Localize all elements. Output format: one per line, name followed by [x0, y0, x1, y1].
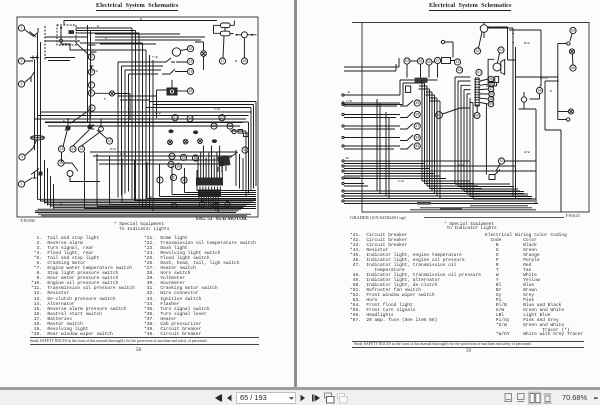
- svg-text:39: 39: [415, 145, 419, 149]
- add page icon: [325, 393, 335, 403]
- svg-text:B: B: [235, 59, 237, 63]
- svg-text:1: 1: [173, 205, 175, 209]
- battery link wires: [214, 21, 235, 58]
- wire row connecting circles: [410, 42, 454, 62]
- page separator: [294, 0, 297, 387]
- switch circle 38: [414, 134, 420, 140]
- svg-text:55: 55: [418, 60, 422, 64]
- leader 44A: [442, 108, 470, 114]
- wire from bracket area down: [545, 81, 561, 130]
- mid verticals descending to bus: [377, 99, 389, 199]
- thick bus bar A: [417, 202, 431, 205]
- item 12 resistor: [78, 146, 84, 152]
- thick bus bar B: [440, 207, 462, 209]
- comb bottom stem: [476, 106, 478, 112]
- right bracket vertical wire: [557, 44, 559, 120]
- svg-text:3: 3: [172, 177, 174, 181]
- svg-text:37: 37: [415, 125, 419, 129]
- label FIG. 53 65-B MOTOR: [196, 217, 247, 222]
- left vertical wire run B: [40, 42, 42, 202]
- vertical wire right of center: [509, 30, 541, 86]
- svg-text:T/W: T/W: [92, 69, 98, 73]
- svg-text:70.68%: 70.68%: [562, 393, 587, 402]
- svg-text:16: 16: [188, 61, 192, 65]
- stub terminals switch feeders: [342, 102, 344, 104]
- left stub Y/B upper: [344, 104, 362, 106]
- short stubs mid: [344, 178, 368, 186]
- svg-text:44: 44: [455, 61, 459, 65]
- leader alternator to circle 15: [181, 49, 188, 50]
- item 23 dash light: [211, 123, 217, 129]
- item 8 stop light pressure switch: [88, 90, 94, 96]
- battery 1: [221, 23, 231, 28]
- svg-text:B/W: B/W: [524, 150, 530, 154]
- svg-text:12: 12: [79, 148, 83, 152]
- comb feeder horizontals: [455, 77, 473, 103]
- ignition switch assembly dark component: [218, 152, 238, 173]
- V2 bus corners: [455, 184, 536, 199]
- bus risers staircase: [85, 152, 198, 209]
- item 21 dome light: [172, 115, 178, 121]
- vertical from indicators down to horn switch: [485, 104, 487, 175]
- wire connector comb A item 32: [196, 146, 223, 186]
- stub wires on motor pair: [88, 45, 97, 52]
- item 32 wire connector: [181, 177, 187, 183]
- item 55 front turn signals: [417, 58, 423, 64]
- continuous view icon: [544, 394, 552, 403]
- left vertical wire run C: [34, 63, 36, 150]
- cranking motor dashed enclosure item 6: [57, 25, 76, 45]
- item 51 defroster fan switch: [498, 47, 504, 53]
- flood light capsule symbol: [31, 136, 45, 140]
- svg-text:4: 4: [21, 156, 23, 160]
- leader lamp to 56: [571, 54, 574, 65]
- toolbar: [0, 387, 600, 405]
- horizontal wires to right edge T B Gr: [45, 102, 256, 132]
- right page: [297, 0, 600, 387]
- vertical bundle V2 comb to bus: [455, 77, 473, 199]
- switch symbol c: [198, 139, 203, 144]
- svg-text:35: 35: [415, 102, 419, 106]
- wire to long vertical right: [519, 109, 537, 204]
- right page title: [429, 3, 511, 9]
- svg-text:41: 41: [477, 72, 481, 76]
- item 30 hourmeter: [175, 163, 181, 169]
- stub terminal top right: [558, 43, 567, 45]
- left page title: [96, 3, 178, 9]
- svg-text:13: 13: [107, 140, 111, 144]
- feeder wire into bracket: [545, 80, 558, 82]
- right page number 59: [466, 349, 471, 354]
- leader item 34: [530, 94, 540, 99]
- battery 2: [221, 31, 231, 36]
- svg-text:3: 3: [214, 205, 216, 209]
- svg-text:W: W: [97, 24, 99, 28]
- svg-text:54: 54: [405, 60, 409, 64]
- pressure switch symbol right of 8: [109, 91, 114, 96]
- feeders to double verticals: [487, 27, 515, 60]
- svg-text:43: 43: [457, 69, 461, 73]
- wires from ignition block: [157, 80, 173, 118]
- leader block to 20: [178, 90, 188, 92]
- item 56 headlights: [570, 65, 576, 71]
- svg-text:52: 52: [475, 50, 479, 54]
- horn switch symbol: [489, 170, 500, 180]
- junction dot bracket: [557, 80, 559, 82]
- dash lamp blob c: [212, 139, 217, 143]
- svg-text:27: 27: [220, 117, 224, 121]
- svg-text:B: B: [140, 17, 142, 21]
- left dashed vertical wire: [44, 26, 46, 60]
- item 44 resistor: [454, 59, 460, 65]
- fuse box item 57: [442, 58, 451, 64]
- stub terminals lower group: [342, 160, 344, 162]
- svg-text:15: 15: [188, 48, 192, 52]
- item 11 transmission oil pressure switch: [70, 146, 76, 152]
- drops from circle row to fuse bar: [407, 64, 438, 80]
- svg-text:B: B: [60, 202, 62, 206]
- leader to item 6: [76, 43, 89, 55]
- wire switch lever item 1: [25, 28, 39, 37]
- duplicate page icon disabled: [338, 394, 348, 404]
- leader to item 17: [230, 33, 234, 35]
- svg-text:38: 38: [415, 137, 419, 141]
- svg-text:2: 2: [20, 60, 22, 64]
- cluster vertical wires: [62, 112, 102, 182]
- item 18 master switch: [241, 58, 247, 64]
- item 27 heater switch: [219, 115, 225, 121]
- svg-text:20: 20: [188, 90, 192, 94]
- two page view icon selected: [529, 392, 542, 404]
- leaders lamps to circles 10 11 12: [63, 130, 100, 147]
- left stub -B upper: [344, 94, 362, 96]
- headlight lamp symbol: [569, 49, 574, 54]
- comb pigtail wires to bus: [199, 196, 218, 212]
- cranking motor internals: [61, 28, 71, 45]
- svg-text:30: 30: [176, 166, 180, 170]
- svg-text:21: 21: [173, 117, 177, 121]
- item 57 fuse: [434, 57, 440, 63]
- item 22 transmission oil temp switch: [187, 115, 193, 121]
- item 54 front flood light: [404, 58, 410, 64]
- svg-text:P: P: [104, 97, 106, 101]
- bracket box left of fan: [488, 59, 494, 82]
- mid horizontal link to right: [505, 160, 536, 162]
- item 47 indicator trans oil temp: [488, 86, 494, 92]
- item 1 tail and stop light: [18, 25, 24, 31]
- svg-text:32: 32: [182, 179, 186, 183]
- item 5 tail and stop light: [18, 181, 24, 187]
- zoom out dash: [594, 397, 598, 398]
- wire item 8 to pressure switch: [95, 93, 130, 120]
- right page color code table: [485, 234, 583, 338]
- right nested corner wires to bus: [236, 150, 249, 194]
- svg-text:10: 10: [59, 148, 63, 152]
- right page footer rule+text: [352, 341, 584, 342]
- svg-text:50: 50: [475, 115, 479, 119]
- wire bracket to turn lamp: [558, 111, 569, 113]
- left page legend column 1 (items 1-20): [31, 236, 135, 337]
- svg-text:Y/Bl: Y/Bl: [430, 184, 438, 188]
- svg-text:-B: -B: [346, 90, 350, 94]
- bottom bus extra wires right page: [410, 206, 536, 210]
- left stub feeders to switch cluster: [344, 103, 400, 149]
- mid bundle lower half to bus: [132, 120, 153, 212]
- dash lamp blob a: [168, 129, 173, 133]
- label T-81623 right page: [565, 213, 580, 218]
- svg-text:31: 31: [243, 149, 247, 153]
- switch cluster mid left five switches: [400, 101, 413, 150]
- wire lamp down: [195, 42, 204, 70]
- wiper motor stem: [483, 23, 485, 39]
- top bus wire from motor to battery: [64, 21, 217, 26]
- item 15 reverse alarm pressure switch: [187, 46, 193, 52]
- single page view icon: [505, 394, 512, 402]
- terminal circle: [441, 40, 444, 43]
- item 50 indicator de-clutch: [488, 101, 494, 107]
- item 44A connector: [436, 112, 443, 119]
- svg-text:R/W: R/W: [110, 147, 116, 151]
- bus circle c: [213, 203, 218, 209]
- svg-text:50: 50: [489, 103, 493, 107]
- leader 53: [570, 34, 572, 41]
- switch circle 37: [414, 123, 420, 129]
- switch symbol a: [168, 140, 173, 145]
- svg-text:3: 3: [20, 83, 22, 87]
- master switch symbol item 18: [241, 32, 247, 38]
- V1 bus corners to right: [422, 181, 482, 189]
- fuse box item 57 dark: [415, 78, 428, 83]
- nested fan feeders into V1 tops: [362, 80, 425, 105]
- bus circle b: [199, 202, 204, 208]
- item 13 de-clutch pressure switch: [106, 138, 112, 144]
- hour meter lamp dark: [87, 124, 94, 129]
- neutral start switch lever: [160, 58, 187, 62]
- item 46 indicator oil pressure: [489, 81, 495, 87]
- second mid bundle verticals: [118, 62, 129, 198]
- stub terminal bottom right: [558, 119, 567, 121]
- switch lever left of 19: [162, 69, 187, 74]
- upper feeders into second bundle: [118, 62, 163, 74]
- bottom bus wire stack left page: [85, 191, 257, 209]
- left stub wires lower group: [344, 161, 538, 204]
- item 19 revolving light: [187, 68, 193, 74]
- item 31 cranking motor switch: [242, 147, 248, 153]
- leader 13: [97, 130, 107, 139]
- svg-text:17: 17: [220, 60, 224, 64]
- mid vertical bundle dropping from top wires: [132, 28, 153, 144]
- item 24 revolving light switch: [169, 153, 175, 159]
- lowest bus wires from left edge: [35, 199, 256, 216]
- svg-text:9: 9: [91, 107, 93, 111]
- node 3 wire: [170, 174, 176, 180]
- horizontal wires below mid: [90, 152, 236, 164]
- arrow marks on vertical wire: [512, 33, 514, 45]
- item 5 chain circle: [88, 69, 94, 75]
- svg-text:F/W: F/W: [398, 179, 404, 183]
- switch circle 35: [414, 100, 420, 106]
- item 25 flood light switch: [180, 154, 186, 160]
- fan wires comb to indicator circles: [480, 79, 489, 104]
- right page legend (items 41-57): [350, 234, 481, 323]
- item 10 engine oil pressure switch: [58, 146, 64, 152]
- item 41 circuit breaker circle: [476, 69, 482, 75]
- item 7 engine water temp switch: [88, 82, 94, 88]
- label T-81586 left page: [20, 218, 35, 223]
- item 3 turn signal rear: [18, 81, 24, 87]
- switch circle 36: [414, 111, 420, 117]
- item 55b turn signal: [426, 59, 432, 65]
- ignition switch block item 33: [167, 88, 178, 96]
- flasher small box: [406, 86, 411, 92]
- bus circle d: [225, 202, 230, 208]
- label GRADER S/N right page: [350, 215, 406, 220]
- indicator comb bottom circle: [474, 113, 480, 119]
- svg-text:36: 36: [415, 114, 419, 118]
- item 29 voltmeter: [168, 161, 174, 167]
- page dropdown arrow: [289, 397, 294, 400]
- switch symbol b: [183, 139, 188, 144]
- svg-text:Br: Br: [346, 156, 350, 160]
- last page nav button: [312, 395, 320, 402]
- upper stub wires right page: [344, 58, 399, 71]
- item 26 light switch: [192, 155, 198, 161]
- svg-text:Y/B: Y/B: [152, 55, 158, 59]
- horizontal comb to right bracket: [516, 76, 558, 78]
- svg-text:F/W: F/W: [214, 107, 220, 111]
- item 49 indicator alternator: [488, 96, 494, 102]
- vertical bundle V1 center: [422, 80, 440, 199]
- item 43 circuit breaker: [456, 67, 462, 73]
- stop light lamp dark: [65, 125, 71, 130]
- node 2 wire: [157, 177, 163, 183]
- svg-text:23: 23: [212, 125, 216, 129]
- item 17 batteries: [219, 58, 225, 64]
- page number input box: [237, 393, 296, 404]
- component row near right edge: [232, 129, 236, 133]
- revolving light lamp: [201, 51, 207, 57]
- svg-text:Y/B: Y/B: [346, 99, 352, 103]
- leader 14: [64, 163, 78, 171]
- svg-text:1: 1: [20, 27, 22, 31]
- svg-text:R/W: R/W: [458, 163, 464, 167]
- svg-text:34: 34: [537, 90, 541, 94]
- schematic border frame left page (FIG.53 65-B MOTOR): [17, 17, 258, 217]
- alternator symbol item 14: [172, 48, 180, 56]
- item 14 alternator: [58, 160, 64, 166]
- wire leader item 4: [25, 140, 37, 156]
- svg-text:B: B: [550, 89, 552, 93]
- long double vertical wires center right: [513, 44, 516, 199]
- left page number 58: [136, 348, 141, 353]
- svg-text:24: 24: [170, 156, 174, 160]
- gauge circle: [99, 127, 104, 132]
- svg-text:22: 22: [188, 118, 192, 122]
- wire connector comb B: [198, 187, 221, 197]
- svg-text:18: 18: [242, 60, 246, 64]
- item 16 neutral start switch: [187, 58, 193, 64]
- leader horn: [496, 164, 500, 171]
- upper wire pair to mid bundle: [70, 28, 146, 50]
- dash light component: [521, 97, 526, 102]
- item 45 indicator engine temp: [488, 76, 494, 82]
- bus circle a: [171, 203, 176, 209]
- svg-text:65 / 193: 65 / 193: [240, 393, 267, 402]
- left page caption: special equipment: [114, 223, 169, 232]
- leader line after GRADER: [424, 217, 564, 218]
- svg-text:B: B: [63, 119, 65, 123]
- svg-text:G: G: [105, 36, 107, 40]
- far right long vertical wire: [560, 130, 562, 212]
- left page footer rule+text: [30, 337, 259, 338]
- svg-text:57: 57: [435, 60, 439, 64]
- pressure switch small circle: [67, 171, 73, 177]
- schematic border frame right page (GRADER): [352, 23, 589, 213]
- svg-text:53: 53: [571, 30, 575, 34]
- previous page nav button: [227, 395, 232, 402]
- svg-text:F/W: F/W: [120, 152, 126, 156]
- item 4 flood light rear: [19, 154, 25, 160]
- svg-text:53: 53: [499, 160, 503, 164]
- dash lamp blob b: [193, 130, 198, 134]
- left page legend column 2 (items 21-40): [144, 236, 256, 337]
- svg-text:26: 26: [193, 157, 197, 161]
- item 53 horn top right: [570, 27, 576, 33]
- svg-text:11: 11: [71, 148, 75, 152]
- svg-text:5: 5: [20, 183, 22, 187]
- wire and fuse item 2: [25, 56, 39, 64]
- right edge vertical wire bundle: [246, 102, 256, 197]
- V1 top feeders short: [419, 86, 441, 101]
- item 20 rear window wiper switch: [187, 88, 193, 94]
- svg-text:55: 55: [427, 61, 431, 65]
- component tick above item 5: [90, 66, 94, 69]
- wire lever item 3: [25, 71, 35, 83]
- left page: [0, 0, 294, 387]
- leader item 9 to lamp cluster: [70, 110, 90, 124]
- svg-text:25: 25: [181, 157, 185, 161]
- fit width view icon: [518, 394, 525, 402]
- left nested corner wires to bottom bus: [45, 160, 54, 210]
- svg-text:Y/B: Y/B: [155, 111, 161, 115]
- svg-text:B/W: B/W: [524, 41, 530, 45]
- item 53b horn circle: [498, 158, 504, 164]
- svg-text:51: 51: [499, 49, 503, 53]
- leader wiper to 52: [479, 32, 483, 48]
- item 52 front window wiper switch: [474, 48, 480, 54]
- first page nav button: [215, 395, 222, 402]
- bus corner returns right page: [480, 197, 516, 200]
- left vertical wire run A: [37, 33, 39, 200]
- dash light stem wires: [519, 92, 525, 109]
- wire leader item 5: [25, 178, 32, 183]
- wire from fan down: [486, 83, 496, 87]
- next page nav button: [301, 395, 306, 402]
- defroster fan symbol with horn: [493, 63, 501, 71]
- svg-text:56: 56: [571, 67, 575, 71]
- item 28 horn switch: [227, 123, 233, 129]
- wire connector comb right page: [474, 78, 480, 106]
- vertical wire pair below motor box: [88, 25, 91, 122]
- svg-text:Pi/B: Pi/B: [540, 76, 548, 80]
- front window wiper motor symbol: [480, 25, 488, 33]
- horizontal wires y95-108 left: [118, 96, 157, 100]
- svg-text:28: 28: [228, 125, 232, 129]
- item 9 hour meter pressure switch: [89, 105, 95, 111]
- item 2 reverse alarm: [18, 58, 24, 64]
- long horizontal wires upper mid: [45, 34, 205, 61]
- front turn signal lamp: [568, 109, 573, 114]
